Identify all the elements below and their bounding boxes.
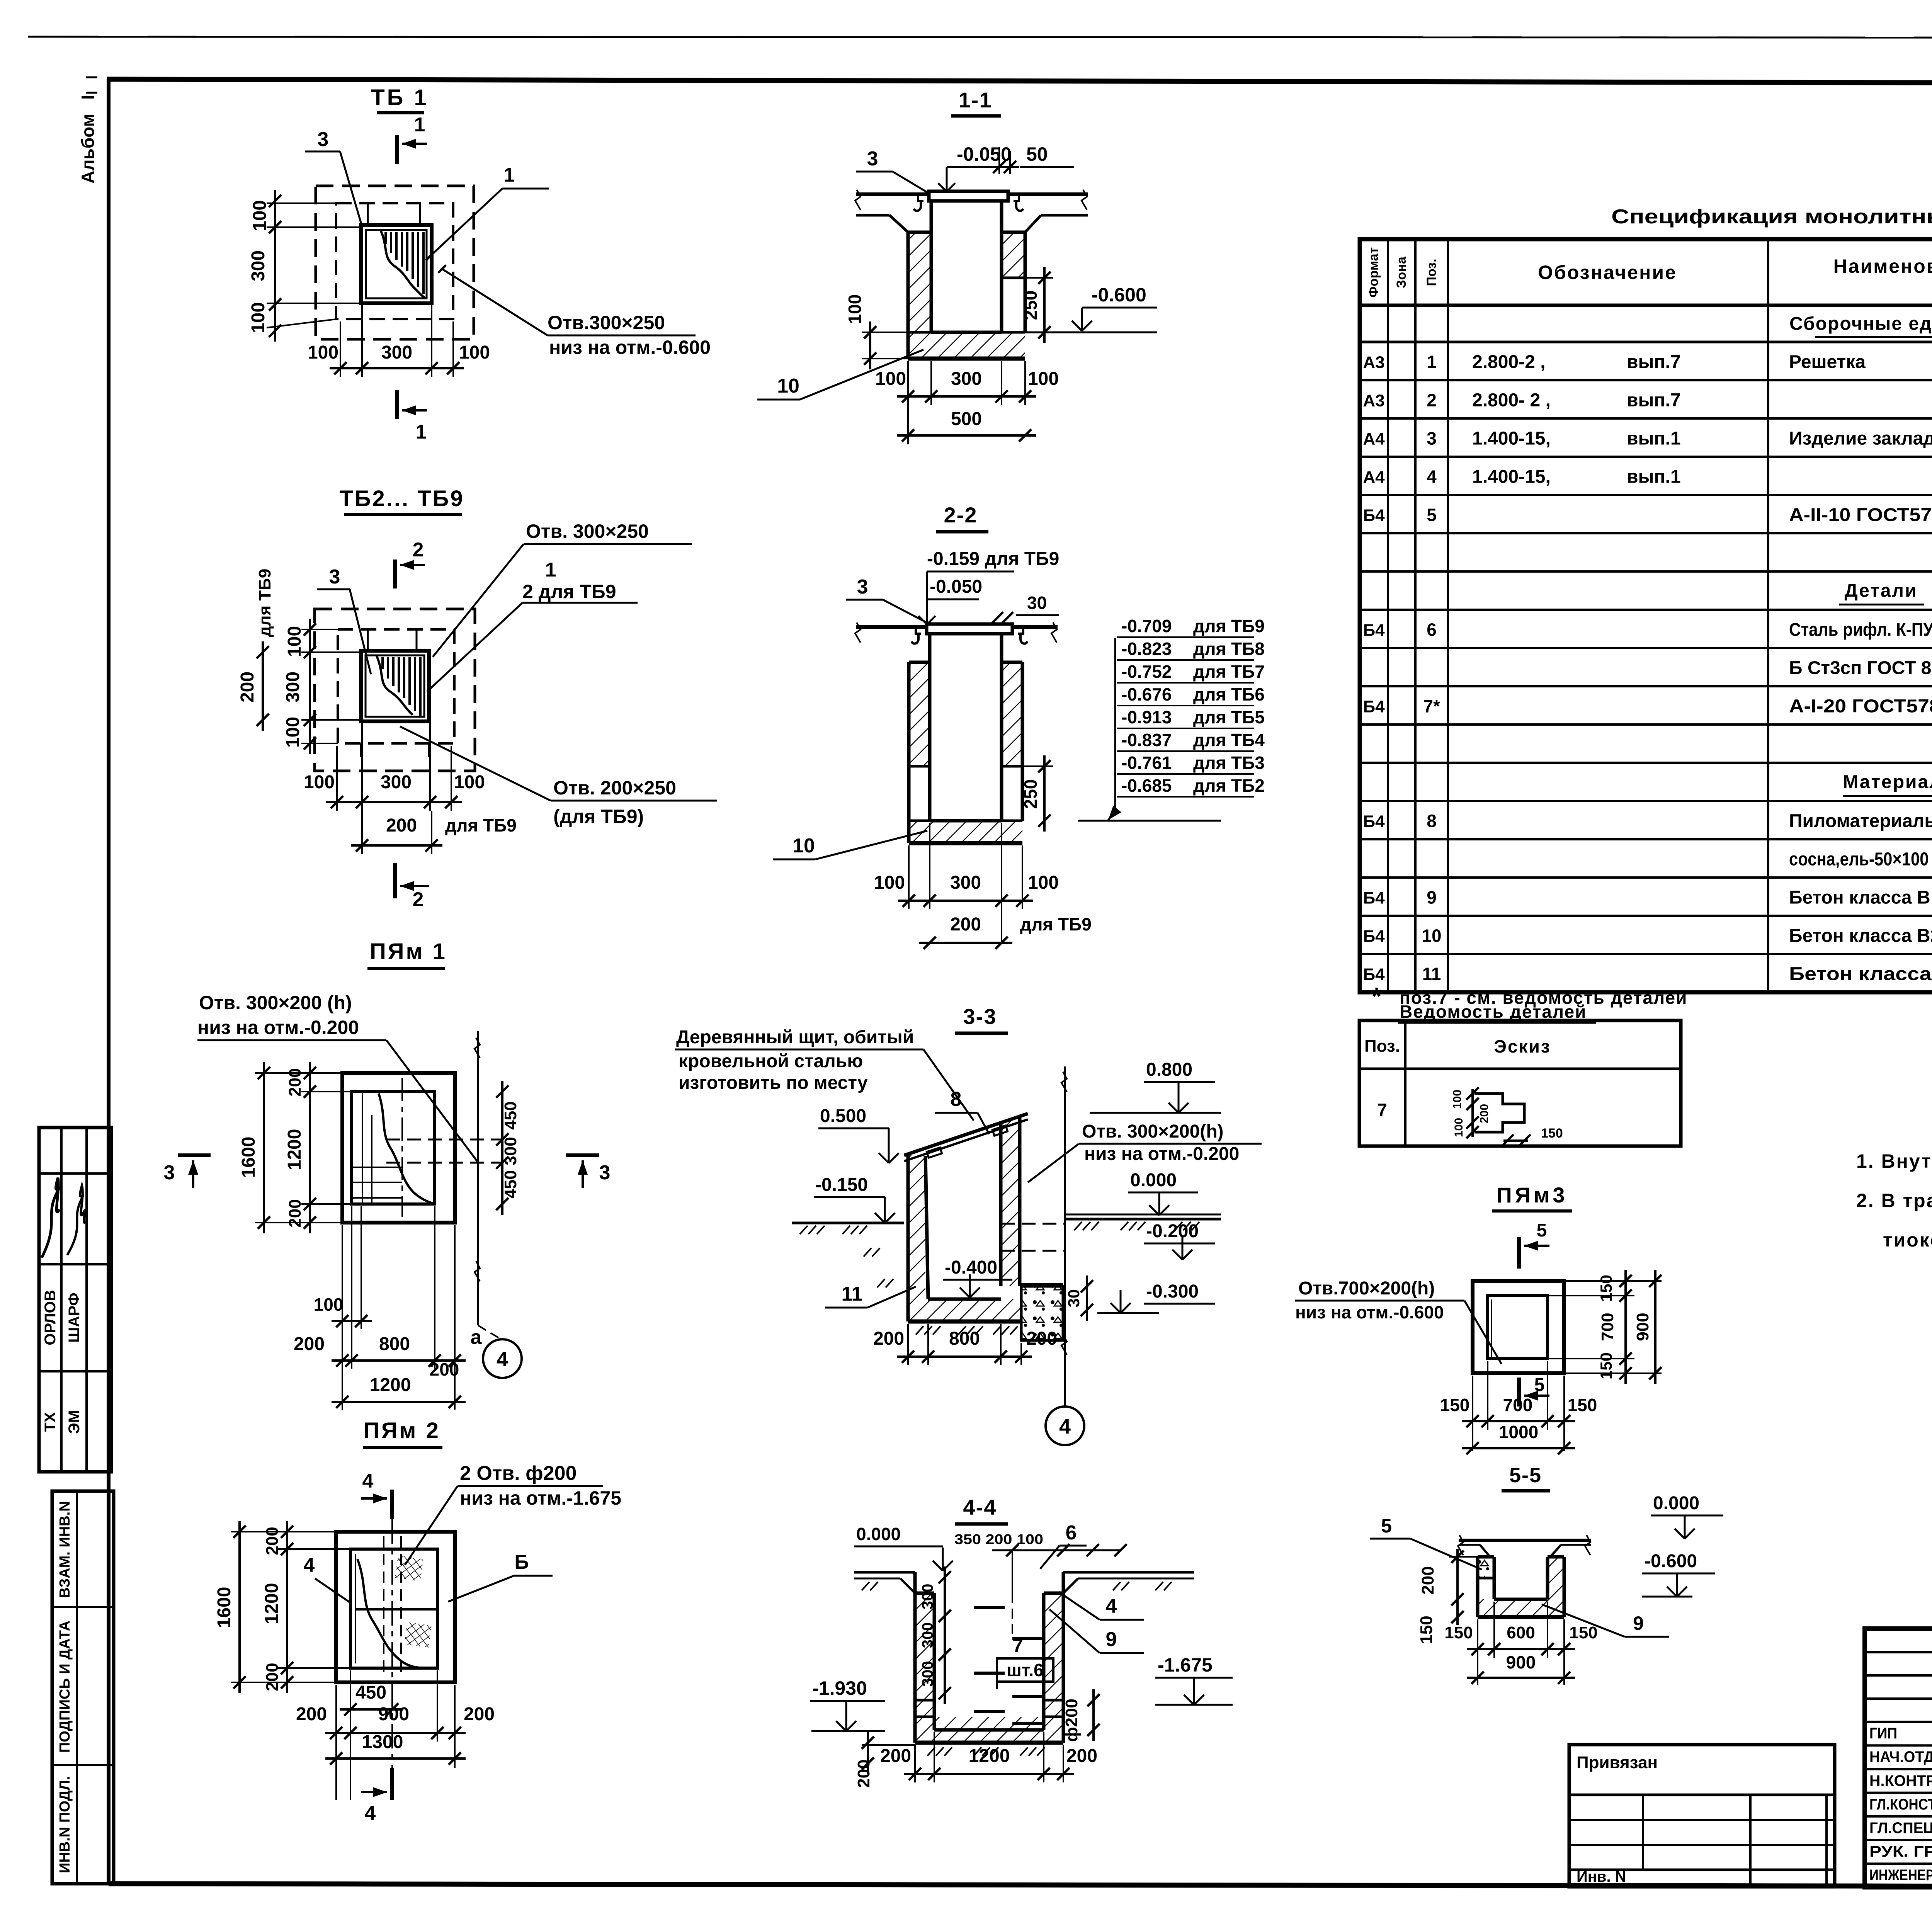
svg-text:-0.752: -0.752 xyxy=(1121,662,1172,682)
PYam2 inner divider xyxy=(355,1608,437,1611)
3-3 axis line xyxy=(1064,1286,1066,1406)
svg-text:Отв.700×200(h): Отв.700×200(h) xyxy=(1298,1278,1435,1299)
svg-text:4: 4 xyxy=(365,1802,376,1825)
TB1 left dims xyxy=(274,190,276,342)
3-3 ground line left xyxy=(792,1222,904,1225)
svg-text:-0.913: -0.913 xyxy=(1121,707,1172,727)
svg-text:низ на отм.-0.200: низ на отм.-0.200 xyxy=(1084,1144,1239,1164)
svg-text:вып.1: вып.1 xyxy=(1627,467,1681,487)
PYam2 left dims xyxy=(238,1521,241,1693)
PYam2 break curve xyxy=(357,1559,425,1668)
5-5 bottom dims xyxy=(1467,1648,1575,1650)
svg-text:ТБ 1: ТБ 1 xyxy=(371,85,429,110)
svg-text:-0.600: -0.600 xyxy=(1645,1551,1697,1571)
1-1 inner vertical guides xyxy=(930,201,933,232)
TB2 left dims xyxy=(309,619,311,754)
svg-text:Отв. 300×200 (h): Отв. 300×200 (h) xyxy=(199,992,352,1014)
TB2 grate bars xyxy=(381,657,384,669)
3-3 dim 30 vertical xyxy=(1086,1276,1088,1321)
svg-text:3: 3 xyxy=(867,148,878,170)
svg-text:Б4: Б4 xyxy=(1363,965,1385,984)
svg-text:Привязан: Привязан xyxy=(1577,1753,1658,1772)
svg-text:100: 100 xyxy=(248,302,269,333)
PYam3 section mark 5 bottom xyxy=(1517,1378,1521,1406)
svg-text:7: 7 xyxy=(1012,1635,1023,1656)
signature squiggle 2 xyxy=(67,1185,86,1255)
svg-text:шт.6: шт.6 xyxy=(1007,1660,1043,1680)
svg-text:200: 200 xyxy=(237,672,258,702)
svg-text:8: 8 xyxy=(1427,811,1437,831)
svg-text:900: 900 xyxy=(378,1704,409,1725)
TB2 grate break curve xyxy=(377,656,413,715)
4-4 anchor marks inside xyxy=(974,1606,1005,1609)
svg-text:10: 10 xyxy=(1422,926,1441,946)
svg-text:Изделие закладное МН554: Изделие закладное МН554 xyxy=(1789,429,1932,449)
1-1 floor soffit right xyxy=(1041,214,1088,217)
left stamp upper table xyxy=(39,1128,111,1472)
PYam3 right dims xyxy=(1624,1270,1627,1384)
svg-text:А-II-10 ГОСТ5781-82 ℓ=900: А-II-10 ГОСТ5781-82 ℓ=900 xyxy=(1789,505,1932,526)
1-1 grate plate xyxy=(929,191,1008,201)
svg-text:Решетка: Решетка xyxy=(1789,352,1866,372)
3-3 pit bottom slab xyxy=(908,1299,1020,1321)
svg-text:-0.823: -0.823 xyxy=(1121,639,1172,659)
PYam1 axis line with break xyxy=(477,1031,479,1325)
TB2 section mark 2 top xyxy=(393,560,397,588)
vedomost sketch bracket xyxy=(1475,1094,1524,1132)
TB2 inner dashed square xyxy=(338,629,454,743)
svg-text:тиоколовой мастикой.: тиоколовой мастикой. xyxy=(1883,1229,1932,1251)
privyazan table outer xyxy=(1569,1745,1835,1887)
svg-text:150: 150 xyxy=(1569,1623,1597,1642)
svg-text:a: a xyxy=(471,1326,482,1349)
svg-text:2: 2 xyxy=(413,888,424,911)
svg-text:Материалы: Материалы xyxy=(1843,772,1932,793)
svg-text:ПЯм3: ПЯм3 xyxy=(1496,1183,1568,1207)
3-3 pit right wall xyxy=(1001,1116,1020,1286)
svg-text:для ТБ4: для ТБ4 xyxy=(1193,730,1265,750)
frame border top xyxy=(107,79,1932,84)
svg-text:5: 5 xyxy=(1381,1515,1392,1537)
svg-text:Н.КОНТР.: Н.КОНТР. xyxy=(1869,1772,1932,1789)
svg-text:2 для ТБ9: 2 для ТБ9 xyxy=(522,581,616,602)
5-5 left dims xyxy=(1456,1549,1459,1625)
frame border left xyxy=(107,79,111,1884)
svg-text:200: 200 xyxy=(873,1328,904,1349)
svg-text:для ТБ9: для ТБ9 xyxy=(1193,616,1265,636)
svg-text:Б4: Б4 xyxy=(1363,621,1385,640)
svg-text:5: 5 xyxy=(1537,1220,1547,1241)
PYam2 inner rect xyxy=(350,1549,437,1668)
svg-text:низ на отм.-0.600: низ на отм.-0.600 xyxy=(1295,1302,1444,1322)
4-4 dim 200 left bottom xyxy=(867,1732,869,1774)
PYam1 hidden hole dashed lines xyxy=(386,1139,502,1141)
5-5 pit right wall xyxy=(1548,1557,1564,1599)
svg-text:3: 3 xyxy=(329,566,340,588)
4-4 dim fi200 xyxy=(1092,1689,1095,1741)
svg-text:0.800: 0.800 xyxy=(1146,1060,1192,1080)
svg-text:для ТБ5: для ТБ5 xyxy=(1193,707,1265,727)
svg-text:200: 200 xyxy=(1026,1328,1057,1349)
PYam3 outer square xyxy=(1473,1281,1564,1373)
svg-text:для ТБ9: для ТБ9 xyxy=(445,815,517,835)
2-2 dim 250 xyxy=(1043,755,1046,832)
vedomost sketch dims xyxy=(1471,1089,1474,1137)
TB2 grate xyxy=(361,651,429,721)
svg-text:ИНВ.N ПОДЛ.: ИНВ.N ПОДЛ. xyxy=(57,1776,73,1873)
svg-text:ГИП: ГИП xyxy=(1869,1725,1897,1742)
svg-text:1200: 1200 xyxy=(370,1375,411,1395)
svg-text:100: 100 xyxy=(314,1294,344,1315)
svg-text:200: 200 xyxy=(1066,1746,1097,1766)
PYam2 outer rect xyxy=(336,1532,455,1682)
TB2 bottom dim 200 for TB9 xyxy=(351,844,442,847)
svg-text:для ТБ6: для ТБ6 xyxy=(1193,684,1265,704)
TB1 grate break curve xyxy=(381,230,425,298)
3-3 circle 4 xyxy=(1046,1406,1084,1445)
svg-text:1: 1 xyxy=(545,559,556,581)
svg-text:1: 1 xyxy=(416,421,427,443)
1-1 pit bottom slab xyxy=(908,332,1025,359)
svg-text:2: 2 xyxy=(413,539,424,561)
svg-text:1. Внутренние поверхности т: 1. Внутренние поверхности трапов, приямк… xyxy=(1856,1150,1932,1172)
4-4 bottom dims xyxy=(904,1773,1074,1775)
TB1 inner dashed square xyxy=(336,203,453,319)
svg-text:Отв. 200×250: Отв. 200×250 xyxy=(553,777,676,799)
svg-text:900: 900 xyxy=(1506,1652,1536,1672)
svg-text:сосна,ель-50×100 ГОСТ24454-80: сосна,ель-50×100 ГОСТ24454-80 xyxy=(1789,849,1932,870)
svg-text:вып.7: вып.7 xyxy=(1627,390,1681,411)
svg-text:3: 3 xyxy=(164,1162,175,1184)
svg-text:Б4: Б4 xyxy=(1363,927,1385,946)
svg-text:300: 300 xyxy=(501,1137,520,1165)
svg-text:-0.300: -0.300 xyxy=(1146,1281,1199,1302)
1-1 right wall joint 250 xyxy=(1002,277,1025,279)
PYam1 section mark 3 left xyxy=(178,1153,211,1157)
svg-text:-0.200: -0.200 xyxy=(1146,1221,1199,1242)
svg-text:-1.930: -1.930 xyxy=(812,1677,867,1699)
2-2 floor line xyxy=(856,625,1058,629)
svg-text:250: 250 xyxy=(1020,779,1041,809)
2-2 pit walls xyxy=(909,662,930,766)
svg-text:3: 3 xyxy=(857,576,868,598)
svg-text:450: 450 xyxy=(501,1101,520,1129)
3-3 concrete block right xyxy=(1021,1286,1063,1340)
PYam1 inner rect xyxy=(352,1092,435,1204)
svg-text:-1.675: -1.675 xyxy=(1158,1654,1213,1676)
3-3 shield sloped plate xyxy=(904,1114,1028,1155)
TB1 section mark 1 bottom xyxy=(395,390,399,419)
svg-text:5: 5 xyxy=(1427,505,1437,525)
2-2 level line to stack xyxy=(1078,820,1221,822)
svg-text:А3: А3 xyxy=(1363,353,1384,372)
svg-text:300: 300 xyxy=(381,342,412,363)
svg-text:9: 9 xyxy=(1106,1628,1117,1651)
svg-text:700: 700 xyxy=(1503,1395,1533,1415)
svg-text:100: 100 xyxy=(304,772,335,793)
left stamp lower boxes xyxy=(52,1491,114,1884)
svg-text:10: 10 xyxy=(793,835,815,857)
svg-text:4: 4 xyxy=(304,1554,315,1577)
svg-text:0.500: 0.500 xyxy=(820,1106,866,1126)
svg-text:300: 300 xyxy=(919,1622,936,1648)
svg-text:НАЧ.ОТД.: НАЧ.ОТД. xyxy=(1869,1748,1932,1765)
svg-text:200: 200 xyxy=(294,1334,325,1354)
1-1 pit walls xyxy=(908,232,931,332)
svg-text:3: 3 xyxy=(599,1162,611,1184)
TB1 section mark 1 top xyxy=(395,135,399,164)
svg-text:-0.685: -0.685 xyxy=(1121,776,1172,796)
spec table column lines xyxy=(1387,239,1389,992)
svg-text:1000: 1000 xyxy=(1499,1422,1538,1442)
svg-text:4: 4 xyxy=(1106,1595,1117,1617)
svg-text:ТХ: ТХ xyxy=(42,1412,59,1432)
svg-text:150: 150 xyxy=(1417,1616,1436,1644)
svg-text:11: 11 xyxy=(1422,964,1441,984)
svg-text:300: 300 xyxy=(248,250,269,281)
PYam3 bottom dims xyxy=(1462,1420,1575,1422)
svg-text:Пиломатериалы - 2-: Пиломатериалы - 2- xyxy=(1789,811,1932,832)
svg-text:Формат: Формат xyxy=(1366,247,1381,298)
svg-text:3-3: 3-3 xyxy=(963,1004,997,1029)
1-1 dim 100 left xyxy=(869,321,871,369)
svg-text:ф200: ф200 xyxy=(1062,1699,1081,1742)
svg-text:1300: 1300 xyxy=(362,1732,403,1752)
svg-text:3: 3 xyxy=(1427,429,1437,449)
spec table outer frame xyxy=(1360,239,1932,992)
title block outer xyxy=(1865,1629,1932,1887)
svg-text:ПЯм 1: ПЯм 1 xyxy=(370,939,447,964)
5-5 pit left wall with insert xyxy=(1478,1557,1494,1578)
PYam2 crosshatch patch upper xyxy=(395,1556,423,1582)
svg-text:1600: 1600 xyxy=(214,1587,235,1628)
svg-text:800: 800 xyxy=(949,1328,980,1349)
svg-text:350 200 100: 350 200 100 xyxy=(954,1531,1043,1547)
PYam2 section mark 4 bottom xyxy=(390,1768,394,1800)
svg-text:для ТБ9: для ТБ9 xyxy=(255,569,274,637)
4-4 wall joints xyxy=(915,1699,934,1702)
svg-text:Б Ст3сп ГОСТ 8568-77: Б Ст3сп ГОСТ 8568-77 xyxy=(1789,658,1932,679)
svg-text:200: 200 xyxy=(296,1704,327,1725)
PYam1 section mark 3 right xyxy=(566,1153,599,1157)
svg-text:100: 100 xyxy=(1452,1118,1465,1137)
svg-text:Бетон класса В12.5, F75: Бетон класса В12.5, F75 xyxy=(1789,964,1932,985)
svg-text:2-2: 2-2 xyxy=(944,503,978,527)
svg-text:7*: 7* xyxy=(1423,696,1440,716)
3-3 ground hatch left wall side xyxy=(864,1248,871,1257)
svg-text:для ТБ7: для ТБ7 xyxy=(1193,662,1265,682)
svg-text:ЭМ: ЭМ xyxy=(66,1410,83,1434)
title block left rows xyxy=(1865,1651,1932,1653)
PYam3 section mark 5 top xyxy=(1517,1237,1521,1269)
2-2 anchor clips xyxy=(912,627,921,644)
TB2 outer dashed square xyxy=(315,609,475,771)
3-3 opening dashed lines right xyxy=(1001,1223,1065,1225)
svg-text:ИНЖЕНЕР: ИНЖЕНЕР xyxy=(1869,1867,1932,1884)
svg-text:150: 150 xyxy=(1440,1395,1470,1415)
svg-text:Спецификация монолитных трап: Спецификация монолитных трапов, приямков xyxy=(1611,206,1932,228)
svg-text:-0.600: -0.600 xyxy=(1092,284,1146,306)
svg-text:ПЯм 2: ПЯм 2 xyxy=(363,1418,440,1443)
svg-text:Сборочные единицы: Сборочные единицы xyxy=(1789,314,1932,334)
svg-text:кровельной сталью: кровельной сталью xyxy=(679,1051,863,1071)
svg-text:200: 200 xyxy=(464,1704,495,1725)
5-5 pit bottom slab xyxy=(1478,1599,1564,1617)
svg-text:-0.676: -0.676 xyxy=(1121,684,1172,704)
svg-text:Эскиз: Эскиз xyxy=(1494,1036,1551,1056)
svg-text:1200: 1200 xyxy=(262,1583,282,1624)
svg-text:Альбом: Альбом xyxy=(78,114,98,184)
svg-text:0.000: 0.000 xyxy=(856,1524,901,1544)
TB2 section mark 2 bottom xyxy=(393,863,397,898)
svg-text:100: 100 xyxy=(874,872,905,893)
svg-text:600: 600 xyxy=(1507,1623,1535,1642)
svg-text:вып.7: вып.7 xyxy=(1627,352,1681,372)
svg-text:2.800-2 ,: 2.800-2 , xyxy=(1472,352,1545,372)
svg-text:1: 1 xyxy=(414,114,425,136)
TB1 outer dashed square xyxy=(316,186,474,339)
svg-text:8: 8 xyxy=(951,1088,962,1111)
3-3 pit left wall xyxy=(908,1155,925,1299)
svg-text:для ТБ8: для ТБ8 xyxy=(1193,639,1265,659)
svg-text:1.400-15,: 1.400-15, xyxy=(1472,467,1551,487)
svg-text:1: 1 xyxy=(1427,352,1437,372)
PYam1 bottom dims xyxy=(332,1320,372,1322)
svg-text:4: 4 xyxy=(1059,1415,1071,1438)
3-3 ground line right xyxy=(1065,1218,1221,1221)
svg-text:вып.1: вып.1 xyxy=(1627,429,1681,449)
3-3 right side wall above xyxy=(1064,1066,1066,1286)
svg-text:ШАРФ: ШАРФ xyxy=(66,1293,83,1342)
svg-text:50: 50 xyxy=(1026,143,1048,165)
svg-text:200: 200 xyxy=(880,1746,911,1766)
svg-text:3: 3 xyxy=(318,128,329,151)
svg-text:Б4: Б4 xyxy=(1363,697,1385,716)
svg-text:Обозначение: Обозначение xyxy=(1538,262,1677,283)
svg-text:4: 4 xyxy=(1427,467,1437,487)
4-4 vertical dims 300x3 xyxy=(944,1566,946,1704)
svg-text:Деревянный щит, обитый: Деревянный щит, обитый xyxy=(676,1027,914,1048)
1-1 floor line xyxy=(856,192,1088,196)
svg-text:300: 300 xyxy=(919,1584,936,1610)
svg-text:низ на отм.-0.600: низ на отм.-0.600 xyxy=(549,337,711,358)
TB2 bottom dims xyxy=(326,801,462,803)
svg-text:200: 200 xyxy=(1478,1104,1491,1123)
3-3 bottom dims xyxy=(897,1355,1032,1358)
svg-text:Сталь рифл. К-ПУ-6.0×650×1000: Сталь рифл. К-ПУ-6.0×650×1000 xyxy=(1789,620,1932,640)
svg-text:2: 2 xyxy=(1427,390,1437,410)
TB1 grate T-2 xyxy=(361,225,432,303)
svg-text:11: 11 xyxy=(842,1283,863,1305)
svg-text:1200: 1200 xyxy=(969,1746,1010,1766)
svg-text:-0.400: -0.400 xyxy=(945,1257,997,1278)
svg-text:300: 300 xyxy=(919,1661,936,1687)
svg-text:Детали: Детали xyxy=(1844,581,1917,601)
svg-text:Инв. N: Инв. N xyxy=(1577,1868,1626,1885)
svg-text:низ на отм.-0.200: низ на отм.-0.200 xyxy=(197,1017,359,1038)
4-4 pit bottom slab xyxy=(915,1717,1063,1743)
svg-text:Поз.: Поз. xyxy=(1424,259,1439,286)
svg-text:0.000: 0.000 xyxy=(1130,1170,1177,1190)
svg-text:(для ТБ9): (для ТБ9) xyxy=(553,806,644,827)
PYam1 break curve xyxy=(379,1094,433,1203)
svg-text:ВЗАМ. ИНВ.N: ВЗАМ. ИНВ.N xyxy=(57,1501,73,1598)
svg-text:2 Отв. ф200: 2 Отв. ф200 xyxy=(460,1462,577,1485)
2-2 bottom dims xyxy=(898,900,1033,902)
svg-text:5: 5 xyxy=(1534,1375,1545,1395)
svg-text:100: 100 xyxy=(250,200,270,231)
spec table header lines xyxy=(1360,304,1932,307)
svg-text:300: 300 xyxy=(283,672,303,702)
svg-text:для ТБ2: для ТБ2 xyxy=(1193,776,1265,796)
svg-text:Бетон класса В25, W6: Бетон класса В25, W6 xyxy=(1789,926,1932,946)
svg-text:ГЛ.СПЕЦ.: ГЛ.СПЕЦ. xyxy=(1869,1820,1932,1837)
svg-text:Б: Б xyxy=(514,1551,529,1573)
svg-text:Б4: Б4 xyxy=(1363,889,1385,908)
svg-text:ОРЛОВ: ОРЛОВ xyxy=(42,1290,59,1345)
svg-text:100: 100 xyxy=(454,772,485,793)
svg-text:ТБ2... ТБ9: ТБ2... ТБ9 xyxy=(339,486,464,511)
svg-text:100: 100 xyxy=(459,342,490,363)
TB2 extension lines xyxy=(367,629,369,651)
svg-text:300: 300 xyxy=(951,369,982,389)
PYam2 hole centerlines dashed xyxy=(383,1536,384,1673)
TB1 bottom dims xyxy=(330,367,464,369)
svg-text:150: 150 xyxy=(1444,1623,1473,1642)
svg-text:700: 700 xyxy=(1598,1313,1617,1341)
svg-text:4: 4 xyxy=(497,1348,508,1371)
frame border bottom xyxy=(109,1884,1932,1887)
PYam2 bottom dims xyxy=(340,1708,403,1711)
svg-text:1200: 1200 xyxy=(284,1129,305,1170)
svg-text:100: 100 xyxy=(308,342,338,363)
paper top edge line xyxy=(28,37,1932,38)
svg-text:30: 30 xyxy=(1027,593,1047,613)
1-1 floor soffit left xyxy=(856,214,889,217)
svg-text:Отв. 300×250: Отв. 300×250 xyxy=(526,520,649,542)
svg-text:2.800- 2 ,: 2.800- 2 , xyxy=(1472,390,1551,411)
svg-text:А4: А4 xyxy=(1363,468,1385,487)
svg-text:6: 6 xyxy=(1427,620,1437,640)
svg-text:4: 4 xyxy=(362,1470,374,1492)
4-4 pit walls xyxy=(915,1593,934,1717)
svg-text:100: 100 xyxy=(875,369,906,389)
svg-text:ГЛ.КОНСТ.: ГЛ.КОНСТ. xyxy=(1869,1796,1932,1813)
svg-text:150: 150 xyxy=(1597,1352,1615,1379)
1-1 anchor clips xyxy=(914,194,923,211)
svg-text:А3: А3 xyxy=(1363,391,1384,410)
svg-text:5-5: 5-5 xyxy=(1509,1464,1542,1487)
svg-text:900: 900 xyxy=(1633,1313,1652,1341)
svg-text:200: 200 xyxy=(1418,1566,1437,1594)
svg-text:300: 300 xyxy=(381,772,412,793)
svg-text:Бетон класса В 12,5: Бетон класса В 12,5 xyxy=(1789,888,1932,908)
svg-text:для ТБ9: для ТБ9 xyxy=(1020,914,1092,934)
svg-text:Б4: Б4 xyxy=(1363,812,1385,831)
svg-text:1600: 1600 xyxy=(238,1137,259,1178)
svg-text:Зона: Зона xyxy=(1394,256,1409,288)
svg-text:100: 100 xyxy=(1028,369,1059,389)
4-4 ground line xyxy=(854,1571,915,1574)
PYam1 inner ledge lines xyxy=(362,1092,363,1204)
svg-text:Наименование: Наименование xyxy=(1833,255,1932,277)
1-1 dim 250 xyxy=(1043,267,1046,343)
PYam3 inner square xyxy=(1488,1296,1548,1359)
svg-text:200: 200 xyxy=(950,914,981,935)
PYam1 outer rect xyxy=(342,1073,455,1223)
svg-text:0.000: 0.000 xyxy=(1653,1493,1699,1514)
PYam2 section mark 4 top xyxy=(390,1490,394,1519)
